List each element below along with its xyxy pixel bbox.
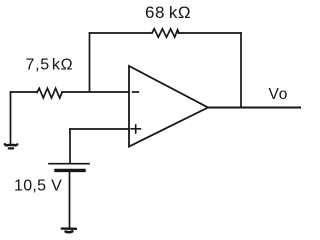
- ground bottom: [62, 229, 76, 233]
- resistor 68 kOhm zigzag: [152, 29, 179, 37]
- svg-text:Vo: Vo: [269, 86, 289, 103]
- wire battery to ground: [69, 172, 71, 229]
- op-amp non-inverting input plus marker: [131, 125, 140, 133]
- op-amp U1 triangle: [129, 66, 208, 147]
- wire input right segment to inverting input: [62, 91, 129, 93]
- svg-text:10,5 V: 10,5 V: [14, 178, 62, 195]
- op-amp inverting input minus marker: [133, 91, 139, 93]
- wire feedback top right segment: [179, 32, 242, 34]
- wire non-inverting input: [70, 128, 129, 130]
- ground left: [5, 144, 17, 148]
- wire feedback top left segment: [90, 32, 153, 34]
- battery 10,5 V: [49, 164, 89, 171]
- wire input left segment: [11, 91, 38, 93]
- wire feedback drop to output: [240, 33, 242, 108]
- resistor 7,5 kOhm zigzag: [37, 88, 62, 98]
- wire battery riser: [69, 129, 71, 163]
- svg-text:7,5 kΩ: 7,5 kΩ: [26, 57, 74, 74]
- svg-text:68 kΩ: 68 kΩ: [145, 3, 191, 22]
- wire left ground drop: [10, 92, 12, 144]
- wire output: [208, 107, 300, 109]
- wire feedback riser: [89, 33, 91, 92]
